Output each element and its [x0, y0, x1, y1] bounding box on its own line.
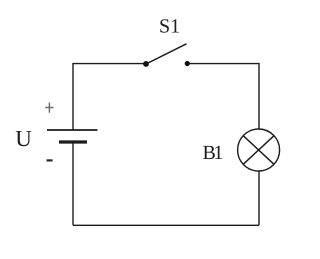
- svg-text:U: U: [15, 126, 32, 151]
- svg-text:S1: S1: [159, 15, 180, 37]
- switch S1 right contact dot: [185, 61, 190, 66]
- wire top segment right (switch to corner): [187, 63, 259, 65]
- wire left vertical lower (battery to corner): [72, 142, 74, 225]
- wire top segment left (corner to switch): [73, 63, 146, 65]
- battery U negative plate: [59, 140, 87, 143]
- wire bottom segment: [73, 224, 259, 226]
- svg-text:B1: B1: [203, 142, 223, 164]
- lamp B1 cross stroke 1: [243, 135, 274, 164]
- wire left vertical upper (corner to battery): [72, 63, 74, 130]
- battery U positive plate: [47, 129, 98, 131]
- battery minus sign: [47, 159, 53, 161]
- switch S1 left contact dot: [143, 61, 149, 67]
- switch S1 lever (open): [146, 44, 187, 64]
- wire right vertical upper (corner to lamp): [258, 63, 260, 129]
- battery plus sign: [45, 103, 53, 113]
- lamp B1 circle: [238, 129, 280, 171]
- wire right vertical lower (lamp to corner): [258, 171, 260, 226]
- lamp B1 cross stroke 2: [243, 135, 274, 164]
